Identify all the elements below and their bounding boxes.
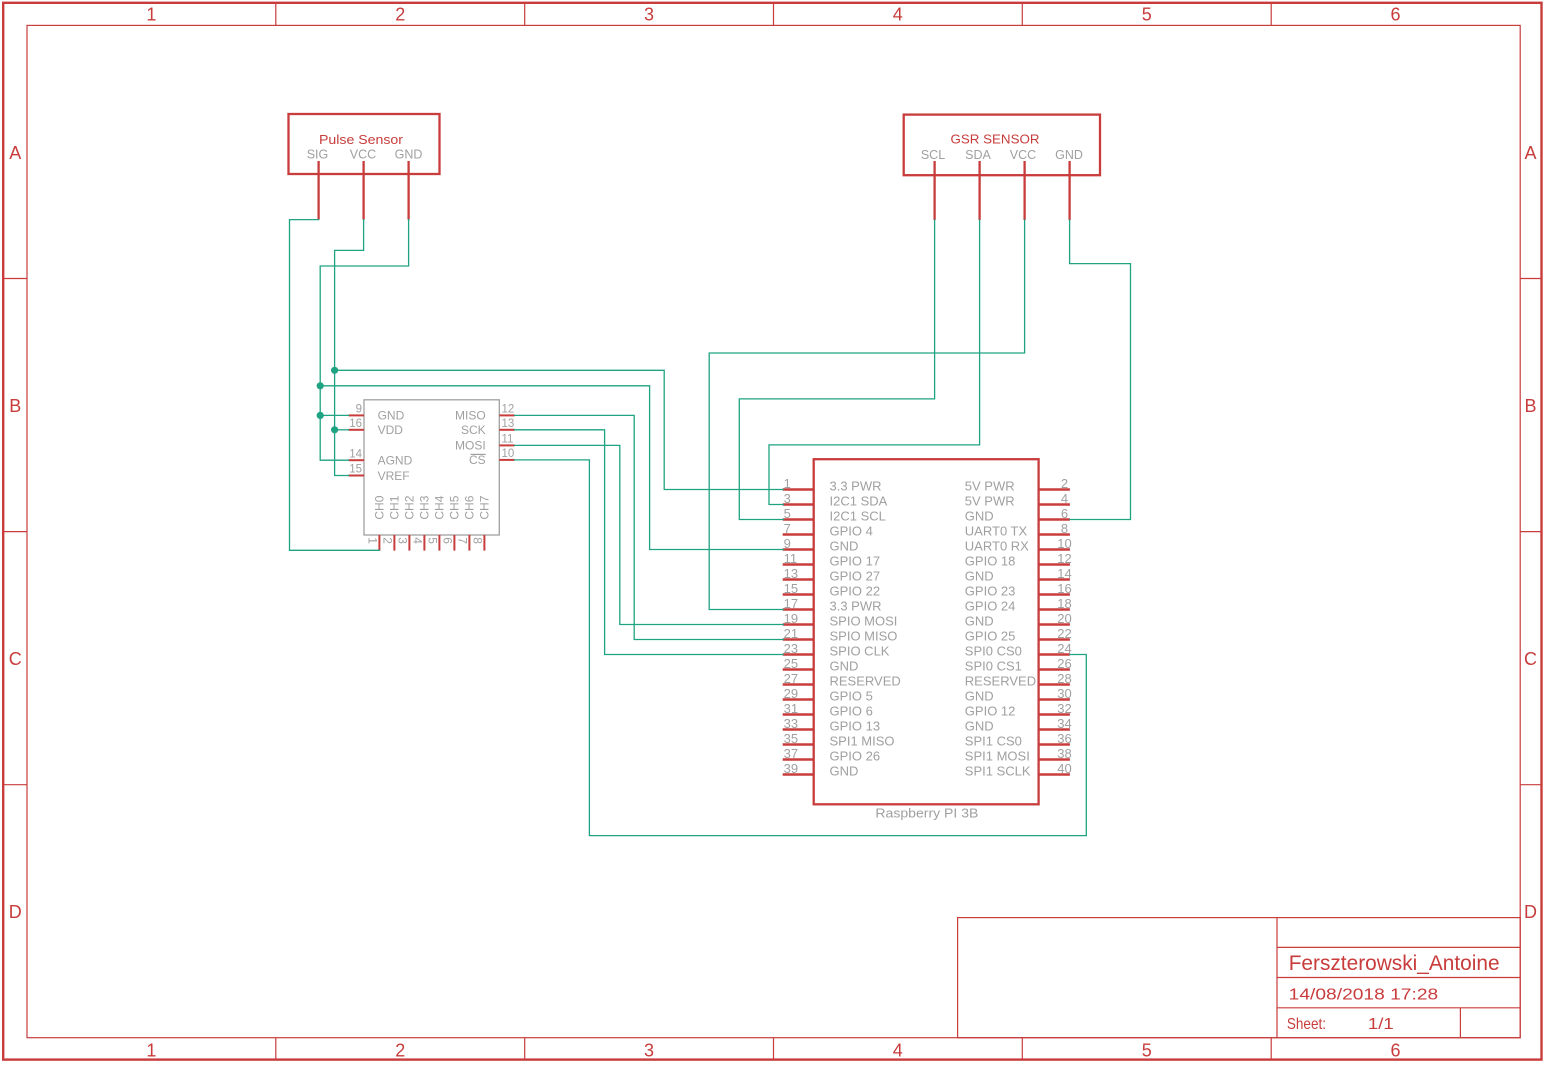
- svg-text:5: 5: [784, 506, 791, 521]
- RPi pin 29 stub: [783, 698, 814, 700]
- svg-text:5V PWR: 5V PWR: [965, 494, 1015, 509]
- svg-text:UART0 RX: UART0 RX: [965, 539, 1029, 554]
- RPi pin 33 stub: [783, 728, 814, 730]
- ADC pin 6 stub (bottom): [453, 535, 455, 551]
- svg-text:3: 3: [784, 491, 791, 506]
- frame row divider left B/C: [3, 531, 27, 533]
- svg-text:D: D: [9, 902, 22, 922]
- svg-text:2: 2: [395, 5, 405, 25]
- svg-text:GPIO 4: GPIO 4: [830, 524, 873, 539]
- RPi pin 10 stub: [1039, 548, 1070, 550]
- ADC pin 16 stub: [349, 429, 365, 431]
- svg-text:12: 12: [502, 404, 515, 416]
- svg-text:3: 3: [644, 5, 654, 25]
- RPi pin 30 stub: [1039, 698, 1070, 700]
- svg-text:3: 3: [396, 537, 410, 544]
- svg-text:28: 28: [1057, 671, 1071, 686]
- svg-text:6: 6: [1390, 1041, 1400, 1061]
- svg-text:14: 14: [349, 448, 362, 460]
- svg-text:1: 1: [146, 1041, 156, 1061]
- svg-text:B: B: [1524, 396, 1536, 416]
- svg-text:26: 26: [1057, 656, 1071, 671]
- svg-text:C: C: [9, 649, 22, 669]
- svg-text:14: 14: [1057, 566, 1071, 581]
- svg-text:SPI1 SCLK: SPI1 SCLK: [965, 764, 1031, 779]
- svg-text:GPIO 25: GPIO 25: [965, 629, 1016, 644]
- svg-text:SPI0 CS0: SPI0 CS0: [965, 644, 1022, 659]
- svg-text:CS: CS: [469, 453, 486, 467]
- RPi pin 8 stub: [1039, 533, 1070, 535]
- title block row line 2: [1277, 977, 1520, 979]
- svg-text:30: 30: [1057, 686, 1071, 701]
- svg-text:GND: GND: [965, 719, 994, 734]
- svg-text:34: 34: [1057, 716, 1071, 731]
- svg-text:1/1: 1/1: [1368, 1016, 1394, 1033]
- pin VCC stub: [1023, 161, 1025, 220]
- svg-text:1: 1: [784, 476, 791, 491]
- svg-text:GPIO 23: GPIO 23: [965, 584, 1016, 599]
- wire Pulse VCC down to ADC VREF (pin 15): [335, 220, 364, 476]
- ADC pin 15 stub: [349, 475, 365, 477]
- svg-text:6: 6: [441, 537, 455, 544]
- svg-text:CH2: CH2: [403, 495, 417, 519]
- title block outline: [958, 918, 1521, 1038]
- frame column divider bottom 1/2: [275, 1038, 277, 1060]
- frame column divider bottom 4/5: [1021, 1038, 1023, 1060]
- svg-text:31: 31: [784, 701, 798, 716]
- svg-text:GND: GND: [1055, 148, 1083, 162]
- svg-text:10: 10: [502, 448, 515, 460]
- title block row line 3: [1277, 1007, 1520, 1009]
- svg-text:32: 32: [1057, 701, 1071, 716]
- svg-text:CH4: CH4: [433, 495, 447, 519]
- frame row divider right B/C: [1520, 531, 1541, 533]
- svg-text:19: 19: [784, 611, 798, 626]
- svg-text:6: 6: [1061, 506, 1068, 521]
- RPi pin 22 stub: [1039, 638, 1070, 640]
- frame row divider left A/B: [3, 278, 27, 280]
- ADC pin 13 stub: [499, 429, 514, 431]
- svg-text:SDA: SDA: [965, 148, 991, 162]
- wire ADC VDD (pin 16) to VCC net: [335, 429, 349, 431]
- RPi pin 12 stub: [1039, 563, 1070, 565]
- svg-text:27: 27: [784, 671, 798, 686]
- frame column divider top 3/4: [773, 3, 775, 26]
- svg-text:GND: GND: [965, 509, 994, 524]
- svg-text:SPI1 MISO: SPI1 MISO: [830, 734, 895, 749]
- ADC pin 10 stub: [499, 459, 514, 461]
- svg-text:3.3 PWR: 3.3 PWR: [830, 599, 882, 614]
- svg-text:CH5: CH5: [448, 495, 462, 519]
- pin SIG stub: [317, 161, 319, 220]
- svg-text:22: 22: [1057, 626, 1071, 641]
- svg-text:24: 24: [1057, 641, 1071, 656]
- svg-text:8: 8: [471, 537, 485, 544]
- svg-text:C: C: [1524, 649, 1537, 669]
- svg-text:29: 29: [784, 686, 798, 701]
- wire Pulse SIG to ADC CH0 (pin 1): [290, 220, 380, 551]
- svg-text:Sheet:: Sheet:: [1287, 1016, 1326, 1033]
- wire ADC SCK (13) to RPi pin 23 (SPIO CLK): [515, 430, 784, 655]
- ADC pin 1 stub (bottom): [378, 535, 380, 551]
- svg-text:1: 1: [146, 5, 156, 25]
- svg-text:SPI1 CS0: SPI1 CS0: [965, 734, 1022, 749]
- svg-text:7: 7: [784, 521, 791, 536]
- RPi pin 39 stub: [783, 773, 814, 775]
- RPi pin 37 stub: [783, 758, 814, 760]
- RPi pin 9 stub: [783, 548, 814, 550]
- svg-text:13: 13: [502, 418, 515, 430]
- svg-text:RESERVED: RESERVED: [830, 674, 901, 689]
- svg-text:2: 2: [1061, 476, 1068, 491]
- RPi pin 40 stub: [1039, 773, 1070, 775]
- svg-text:GPIO 6: GPIO 6: [830, 704, 873, 719]
- frame column divider bottom 5/6: [1270, 1038, 1272, 1060]
- svg-text:Raspberry PI 3B: Raspberry PI 3B: [875, 807, 978, 821]
- svg-text:11: 11: [784, 551, 798, 566]
- wire GSR SDA to RPi pin 3 (I2C1 SDA): [769, 220, 980, 505]
- ADC pin 14 stub: [349, 459, 365, 461]
- wire junction at 334.6,429.8: [331, 426, 338, 433]
- RPi pin 4 stub: [1039, 503, 1070, 505]
- svg-text:25: 25: [784, 656, 798, 671]
- svg-text:B: B: [9, 396, 21, 416]
- ADC pin 2 stub (bottom): [393, 535, 395, 551]
- svg-text:40: 40: [1057, 761, 1071, 776]
- svg-text:A: A: [1524, 143, 1536, 163]
- svg-text:1: 1: [366, 537, 380, 544]
- svg-text:MISO: MISO: [455, 409, 486, 423]
- frame column divider top 5/6: [1270, 3, 1272, 26]
- svg-text:35: 35: [784, 731, 798, 746]
- RPi pin 13 stub: [783, 578, 814, 580]
- svg-text:Pulse Sensor: Pulse Sensor: [319, 133, 403, 147]
- RPi pin 15 stub: [783, 593, 814, 595]
- svg-text:16: 16: [349, 418, 362, 430]
- frame column divider top 1/2: [275, 3, 277, 26]
- svg-text:11: 11: [502, 434, 514, 446]
- svg-text:GSR SENSOR: GSR SENSOR: [951, 133, 1040, 147]
- ADC pin 11 stub: [499, 444, 514, 446]
- wire ADC MOSI (11) to RPi pin 19 (SPIO MOSI): [515, 445, 784, 624]
- svg-text:D: D: [1524, 902, 1537, 922]
- svg-text:VCC: VCC: [1010, 148, 1036, 162]
- svg-text:20: 20: [1057, 611, 1071, 626]
- wire ADC MISO (12) to RPi pin 21 (SPIO MISO): [515, 415, 784, 639]
- svg-text:VCC: VCC: [350, 148, 376, 162]
- svg-text:I2C1 SDA: I2C1 SDA: [830, 494, 888, 509]
- wire ADC GND (pin 9) to GND net: [320, 414, 348, 416]
- svg-text:18: 18: [1057, 596, 1071, 611]
- svg-text:GND: GND: [830, 764, 859, 779]
- svg-text:GND: GND: [395, 148, 423, 162]
- svg-text:4: 4: [1061, 491, 1068, 506]
- frame column divider bottom 3/4: [773, 1038, 775, 1060]
- IC ADC box: [364, 400, 499, 535]
- svg-text:15: 15: [349, 464, 362, 476]
- svg-text:3: 3: [644, 1041, 654, 1061]
- wire junction at 320.2,385.8: [317, 382, 324, 389]
- svg-text:GPIO 18: GPIO 18: [965, 554, 1016, 569]
- pin GND stub: [1068, 161, 1070, 220]
- svg-text:23: 23: [784, 641, 798, 656]
- RPi pin 24 stub: [1039, 653, 1070, 655]
- svg-text:VDD: VDD: [378, 423, 404, 437]
- svg-text:CH1: CH1: [388, 495, 402, 519]
- wire 3.3V net to RPi pin 1 (3.3 PWR): [335, 370, 784, 489]
- svg-text:RESERVED: RESERVED: [965, 674, 1036, 689]
- svg-text:7: 7: [456, 537, 470, 544]
- ADC pin 3 stub (bottom): [408, 535, 410, 551]
- svg-text:9: 9: [784, 536, 791, 551]
- RPi pin 28 stub: [1039, 683, 1070, 685]
- svg-text:GND: GND: [830, 539, 859, 554]
- pin VCC stub: [362, 161, 364, 220]
- pin SDA stub: [978, 161, 980, 220]
- svg-text:SPI1 MOSI: SPI1 MOSI: [965, 749, 1030, 764]
- IC Raspberry PI 3B box: [814, 459, 1039, 804]
- svg-text:2: 2: [395, 1041, 405, 1061]
- svg-text:I2C1 SCL: I2C1 SCL: [830, 509, 886, 524]
- wire junction at 320.2,415.4: [317, 412, 324, 419]
- ADC pin 8 stub (bottom): [483, 535, 485, 551]
- svg-text:GPIO 13: GPIO 13: [830, 719, 881, 734]
- svg-text:3.3 PWR: 3.3 PWR: [830, 479, 882, 494]
- wire GSR VCC to RPi pin 17 (3.3 PWR): [709, 220, 1024, 610]
- svg-text:AGND: AGND: [378, 454, 413, 468]
- frame row divider right C/D: [1520, 784, 1541, 786]
- RPi pin 11 stub: [783, 563, 814, 565]
- wire ADC CS (10) to RPi pin 24 (SPI0 CS0): [515, 460, 1087, 836]
- RPi pin 32 stub: [1039, 713, 1070, 715]
- ADC pin 7 stub (bottom): [468, 535, 470, 551]
- frame column divider bottom 2/3: [524, 1038, 526, 1060]
- RPi pin 34 stub: [1039, 728, 1070, 730]
- svg-text:33: 33: [784, 716, 798, 731]
- RPi pin 31 stub: [783, 713, 814, 715]
- svg-text:GND: GND: [378, 409, 405, 423]
- title block sheet cell divider: [1459, 1008, 1461, 1038]
- RPi pin 38 stub: [1039, 758, 1070, 760]
- svg-text:12: 12: [1057, 551, 1071, 566]
- svg-text:GPIO 26: GPIO 26: [830, 749, 881, 764]
- ADC pin 12 stub: [499, 414, 514, 416]
- RPi pin 7 stub: [783, 533, 814, 535]
- frame column divider top 2/3: [524, 3, 526, 26]
- svg-text:4: 4: [893, 5, 903, 25]
- svg-text:GPIO 17: GPIO 17: [830, 554, 881, 569]
- RPi pin 16 stub: [1039, 593, 1070, 595]
- svg-text:5: 5: [1142, 1041, 1152, 1061]
- svg-text:37: 37: [784, 746, 798, 761]
- RPi pin 14 stub: [1039, 578, 1070, 580]
- RPi pin 21 stub: [783, 638, 814, 640]
- svg-text:36: 36: [1057, 731, 1071, 746]
- svg-text:GPIO 22: GPIO 22: [830, 584, 881, 599]
- RPi pin 6 stub: [1039, 518, 1070, 520]
- svg-text:SPIO MISO: SPIO MISO: [830, 629, 898, 644]
- svg-text:17: 17: [784, 596, 798, 611]
- RPi pin 20 stub: [1039, 623, 1070, 625]
- RPi pin 2 stub: [1039, 488, 1070, 490]
- svg-text:6: 6: [1390, 5, 1400, 25]
- svg-text:MOSI: MOSI: [455, 439, 486, 453]
- svg-text:GPIO 27: GPIO 27: [830, 569, 881, 584]
- svg-text:SPIO MOSI: SPIO MOSI: [830, 614, 898, 629]
- frame row divider left C/D: [3, 784, 27, 786]
- svg-text:15: 15: [784, 581, 798, 596]
- svg-text:10: 10: [1057, 536, 1071, 551]
- connector Pulse Sensor box: [289, 114, 440, 174]
- RPi pin 35 stub: [783, 743, 814, 745]
- svg-text:5: 5: [1142, 5, 1152, 25]
- RPi pin 36 stub: [1039, 743, 1070, 745]
- RPi pin 27 stub: [783, 683, 814, 685]
- svg-text:13: 13: [784, 566, 798, 581]
- svg-text:SPIO CLK: SPIO CLK: [830, 644, 890, 659]
- svg-text:GND: GND: [965, 614, 994, 629]
- wire GND net to RPi pin 9 (GND): [320, 386, 783, 550]
- svg-text:5V PWR: 5V PWR: [965, 479, 1015, 494]
- svg-text:5: 5: [426, 537, 440, 544]
- title block row line 1: [1277, 946, 1520, 948]
- svg-text:38: 38: [1057, 746, 1071, 761]
- svg-text:SCK: SCK: [461, 423, 486, 437]
- connector GSR SENSOR box: [904, 115, 1100, 176]
- svg-text:Ferszterowski_Antoine: Ferszterowski_Antoine: [1289, 952, 1500, 975]
- svg-text:16: 16: [1057, 581, 1071, 596]
- RPi pin 17 stub: [783, 608, 814, 610]
- wire Pulse GND down to ADC AGND (pin 14): [320, 220, 408, 461]
- RPi pin 26 stub: [1039, 668, 1070, 670]
- svg-text:CH7: CH7: [478, 495, 492, 519]
- ADC pin 4 stub (bottom): [423, 535, 425, 551]
- ADC pin 5 stub (bottom): [438, 535, 440, 551]
- svg-text:4: 4: [411, 537, 425, 544]
- svg-text:GND: GND: [965, 689, 994, 704]
- svg-text:VREF: VREF: [378, 469, 410, 483]
- svg-text:CH6: CH6: [463, 495, 477, 519]
- RPi pin 23 stub: [783, 653, 814, 655]
- svg-text:SIG: SIG: [307, 148, 329, 162]
- svg-text:8: 8: [1061, 521, 1068, 536]
- svg-text:CH0: CH0: [373, 495, 387, 519]
- title block vertical divider: [1276, 918, 1278, 1038]
- pin GND stub: [407, 161, 409, 220]
- svg-text:GND: GND: [830, 659, 859, 674]
- svg-text:GPIO 5: GPIO 5: [830, 689, 873, 704]
- svg-text:21: 21: [784, 626, 798, 641]
- frame column divider top 4/5: [1021, 3, 1023, 26]
- svg-text:CH3: CH3: [418, 495, 432, 519]
- RPi pin 25 stub: [783, 668, 814, 670]
- wire GSR SCL to RPi pin 5 (I2C1 SCL): [739, 220, 934, 520]
- svg-text:2: 2: [381, 537, 395, 544]
- svg-text:GPIO 12: GPIO 12: [965, 704, 1016, 719]
- svg-text:A: A: [9, 143, 21, 163]
- svg-text:14/08/2018 17:28: 14/08/2018 17:28: [1289, 986, 1439, 1003]
- svg-text:39: 39: [784, 761, 798, 776]
- svg-text:SPI0 CS1: SPI0 CS1: [965, 659, 1022, 674]
- pin SCL stub: [933, 161, 935, 220]
- svg-text:GPIO 24: GPIO 24: [965, 599, 1016, 614]
- svg-text:UART0 TX: UART0 TX: [965, 524, 1028, 539]
- RPi pin 19 stub: [783, 623, 814, 625]
- svg-text:9: 9: [356, 404, 362, 416]
- RPi pin 5 stub: [783, 518, 814, 520]
- RPi pin 3 stub: [783, 503, 814, 505]
- RPi pin 18 stub: [1039, 608, 1070, 610]
- ADC pin 9 stub: [349, 414, 365, 416]
- svg-text:SCL: SCL: [921, 148, 945, 162]
- svg-text:GND: GND: [965, 569, 994, 584]
- frame row divider right A/B: [1520, 278, 1541, 280]
- wire junction at 334.6,370.3: [331, 367, 338, 374]
- RPi pin 1 stub: [783, 488, 814, 490]
- svg-text:4: 4: [893, 1041, 903, 1061]
- wire GSR GND to RPi pin 6 (GND): [1070, 220, 1131, 520]
